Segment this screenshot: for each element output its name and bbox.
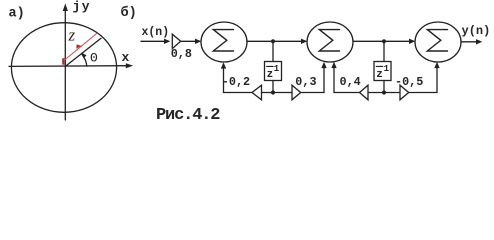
theta label: [90, 51, 98, 66]
red origin mark: [62, 58, 64, 64]
x axis arrowhead: [126, 63, 133, 68]
jy axis: [64, 8, 66, 120]
svg-text:-0,2: -0,2: [222, 75, 250, 89]
feedforward wire right section 2: [384, 92, 400, 94]
x axis label: [122, 50, 130, 65]
delay z-1 box 1: [265, 62, 282, 81]
wire sum2 to sum3: [353, 40, 410, 42]
label b): [121, 5, 137, 21]
wire sum1 to sum2: [247, 40, 302, 42]
output arrowhead: [476, 39, 482, 44]
y(n) label: [462, 24, 491, 38]
feedback wire left section 1: [262, 92, 274, 94]
delay z-1 box 2: [374, 62, 391, 81]
wire to riser into sum2 right-bottom: [334, 92, 360, 94]
0,4 label: [340, 75, 361, 89]
svg-text:б): б): [121, 5, 137, 21]
wire node B down: [383, 41, 385, 61]
wire to riser into sum2 left-bottom: [301, 92, 324, 94]
arrowhead into sum2 bottom right: [331, 62, 336, 68]
z-1 text box 1: [267, 64, 280, 81]
junction dot below box 2: [382, 90, 386, 94]
svg-text:0,4: 0,4: [340, 75, 361, 89]
svg-text:z: z: [68, 26, 76, 45]
gain -0,5 triangle: [400, 85, 409, 100]
radius line (black): [66, 38, 102, 66]
svg-text:Рис.4.2: Рис.4.2: [156, 106, 220, 125]
sigma glyph U3: [427, 30, 447, 51]
riser into sum2 left-bottom: [323, 67, 325, 93]
svg-text:x: x: [122, 50, 130, 65]
svg-text:0,3: 0,3: [295, 75, 316, 89]
arrowhead into sum3 bottom: [434, 62, 439, 68]
feedforward wire right section 1: [273, 92, 292, 94]
node B junction dot: [382, 39, 386, 43]
arrowhead into sum2 bottom left: [321, 62, 326, 68]
summer U1 circle: [201, 22, 247, 62]
sigma glyph U1: [213, 30, 233, 51]
sigma glyph U2: [319, 30, 339, 51]
riser into sum2 right-bottom: [333, 67, 335, 93]
x(n) label: [142, 26, 170, 39]
-0,5 label: [395, 75, 423, 89]
svg-text:0,8: 0,8: [171, 47, 192, 61]
label a): [9, 7, 25, 22]
svg-text:1: 1: [384, 64, 390, 74]
riser into sum3 bottom: [436, 67, 438, 93]
angle arc: [82, 55, 87, 67]
wire node A down: [272, 41, 274, 61]
svg-text:а): а): [9, 7, 25, 22]
radius vector (red): [64, 33, 97, 60]
gain -0,2 triangle: [252, 85, 262, 100]
z-1 text box 2: [376, 64, 389, 81]
node A junction dot: [271, 39, 275, 43]
svg-text:-0,5: -0,5: [395, 75, 423, 89]
arrowhead into sum 3: [409, 39, 415, 44]
jy axis arrowhead: [63, 4, 68, 12]
left riser 1: [223, 67, 225, 93]
caption: [156, 106, 220, 125]
unit circle: [11, 23, 116, 113]
0,3 label: [295, 75, 316, 89]
wire box1 down: [272, 81, 274, 93]
0,8 label: [171, 47, 192, 61]
svg-text:jy: jy: [73, 0, 92, 14]
svg-text:Θ: Θ: [90, 51, 98, 66]
gain 0,4 triangle: [360, 85, 369, 100]
svg-text:1: 1: [274, 64, 280, 74]
arrowhead into sum1 bottom: [221, 62, 226, 68]
input wire: [141, 40, 165, 42]
wire box2 down: [383, 81, 385, 93]
angle arc arrowhead: [81, 52, 86, 58]
-0,2 label: [222, 75, 250, 89]
x axis: [9, 65, 129, 68]
input arrowhead: [164, 39, 170, 44]
svg-text:z: z: [376, 69, 383, 81]
svg-text:x(n): x(n): [142, 26, 170, 39]
summer U2 circle: [307, 22, 353, 62]
gain 0,8 triangle: [172, 34, 180, 48]
svg-text:z: z: [267, 69, 274, 81]
gain 0,3 triangle: [292, 85, 301, 100]
wire to sum 1: [181, 40, 196, 42]
jy label: [73, 0, 92, 14]
red mid arrowhead: [76, 44, 81, 49]
output wire: [461, 41, 477, 43]
feedback wire left section 2: [368, 92, 384, 94]
svg-text:y(n): y(n): [462, 24, 491, 38]
wire to left riser 1: [224, 92, 253, 94]
junction dot below box 1: [271, 90, 275, 94]
z label: [68, 26, 76, 45]
arrowhead into sum 2: [301, 39, 307, 44]
wire to riser into sum3 bottom: [409, 92, 437, 94]
arrowhead into sum 1: [195, 39, 201, 44]
summer U3 circle: [415, 22, 461, 62]
